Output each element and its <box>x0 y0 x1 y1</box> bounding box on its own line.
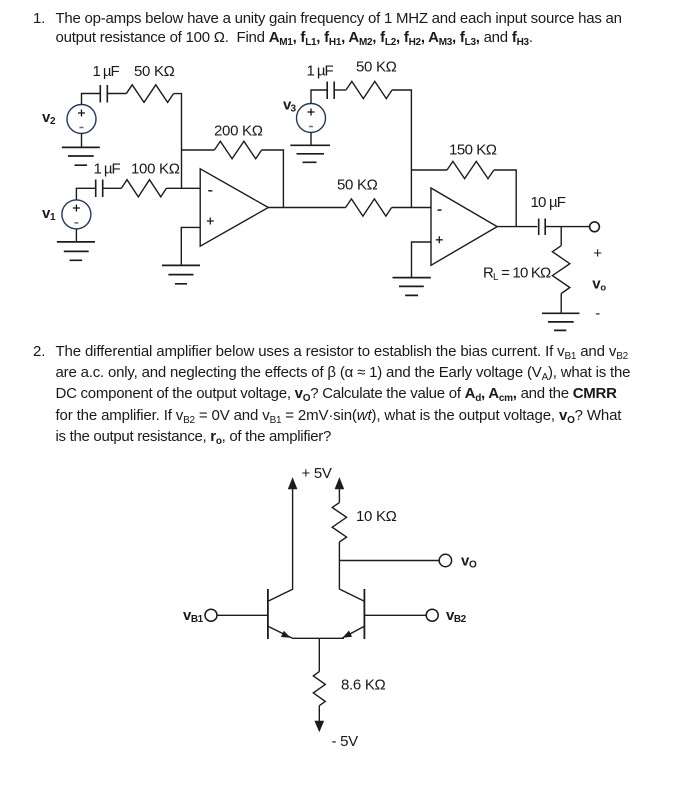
svg-text:-: - <box>595 305 600 322</box>
wire U2 output <box>497 226 537 228</box>
svg-text:vo: vo <box>592 276 606 294</box>
source V2 <box>67 105 96 134</box>
svg-text:vO: vO <box>461 553 477 571</box>
op-amp U2 <box>431 188 497 265</box>
ground (U1 plus) <box>162 265 200 283</box>
resistor 50 KOhm (V3) <box>346 81 392 98</box>
svg-text:1 µF: 1 µF <box>93 63 120 80</box>
resistor 100 KOhm <box>121 180 166 197</box>
wire <box>103 187 122 189</box>
ground (RL) <box>542 313 580 330</box>
wire collector right <box>338 542 340 590</box>
transistor Q1 <box>268 589 293 639</box>
svg-text:50 KΩ: 50 KΩ <box>337 177 378 194</box>
svg-text:10 KΩ: 10 KΩ <box>356 508 397 525</box>
resistor 200 KOhm feedback <box>182 141 284 207</box>
svg-text:50 KΩ: 50 KΩ <box>356 59 397 76</box>
svg-text:v3: v3 <box>283 97 297 115</box>
svg-text:100 KΩ: 100 KΩ <box>131 161 180 178</box>
capacitor 10uF <box>539 219 546 236</box>
wire V2 top <box>82 94 101 105</box>
wire Vo <box>339 560 439 562</box>
svg-text:200 KΩ: 200 KΩ <box>214 123 263 140</box>
svg-text:8.6 KΩ: 8.6 KΩ <box>341 677 386 694</box>
ground (V2) <box>81 134 83 148</box>
power +5V arrow left <box>289 479 297 590</box>
terminal VB1 <box>205 609 217 621</box>
wire to -5V <box>316 706 324 731</box>
svg-text:- 5V: - 5V <box>332 733 359 750</box>
power +5V arrow right <box>336 479 344 503</box>
svg-text:10 µF: 10 µF <box>531 194 566 211</box>
resistor 8.6 KOhm <box>313 672 325 706</box>
wire <box>392 207 431 209</box>
svg-text:RL = 10 KΩ: RL = 10 KΩ <box>483 265 551 284</box>
svg-text:150 KΩ: 150 KΩ <box>449 142 497 159</box>
transistor Q2 <box>340 589 365 639</box>
op-amp U1 <box>200 169 268 246</box>
svg-text:1 µF: 1 µF <box>94 161 121 178</box>
wire U2 plus input to ground <box>412 242 432 278</box>
wire node A vertical <box>174 94 182 189</box>
wire U1 plus input to ground <box>181 227 200 265</box>
wire V3 top <box>311 90 327 104</box>
wire V1 top <box>76 188 95 200</box>
wire <box>166 187 200 189</box>
resistor 150 KOhm feedback <box>411 161 516 226</box>
svg-text:1 µF: 1 µF <box>307 63 334 80</box>
capacitor 1uF (V1) <box>96 180 103 198</box>
svg-text:+ 5V: + 5V <box>302 465 332 482</box>
terminal VB2 <box>426 609 438 621</box>
resistor 50 KOhm (V2) <box>126 85 173 103</box>
svg-text:50 KΩ: 50 KΩ <box>134 63 175 80</box>
capacitor 1uF (V2) <box>100 85 107 103</box>
output terminal Vo <box>439 554 451 566</box>
ground (U2 plus) <box>393 278 431 296</box>
resistor 10 KOhm <box>332 503 346 542</box>
ground (V1) <box>75 229 77 242</box>
wire to output terminal <box>545 226 589 228</box>
wire emitter bus <box>292 637 344 639</box>
capacitor 1uF (V3) <box>327 82 334 100</box>
wire tail <box>318 638 320 671</box>
svg-text:+: + <box>593 245 602 262</box>
wire Q1 base <box>217 614 268 616</box>
resistor 50 KOhm series <box>346 199 392 216</box>
wire <box>334 89 346 91</box>
wire node B vertical <box>392 90 411 208</box>
problem 1 number <box>33 9 45 28</box>
source V3 <box>297 104 326 133</box>
svg-text:v2: v2 <box>42 109 56 127</box>
problem 2 number <box>33 342 45 361</box>
problem 2 text <box>56 342 631 447</box>
wire U1 output <box>268 207 345 209</box>
source V1 <box>62 200 91 229</box>
resistor RL vertical <box>552 246 569 294</box>
problem 1 text <box>56 9 622 49</box>
wire Q2 base <box>364 614 426 616</box>
svg-text:vB2: vB2 <box>446 607 467 625</box>
wire <box>107 93 126 95</box>
svg-text:v1: v1 <box>42 205 56 223</box>
ground (V3) <box>310 133 312 146</box>
wire <box>560 294 562 314</box>
wire junction down <box>560 227 562 246</box>
output terminal Vo <box>590 222 600 232</box>
svg-text:vB1: vB1 <box>183 607 204 625</box>
